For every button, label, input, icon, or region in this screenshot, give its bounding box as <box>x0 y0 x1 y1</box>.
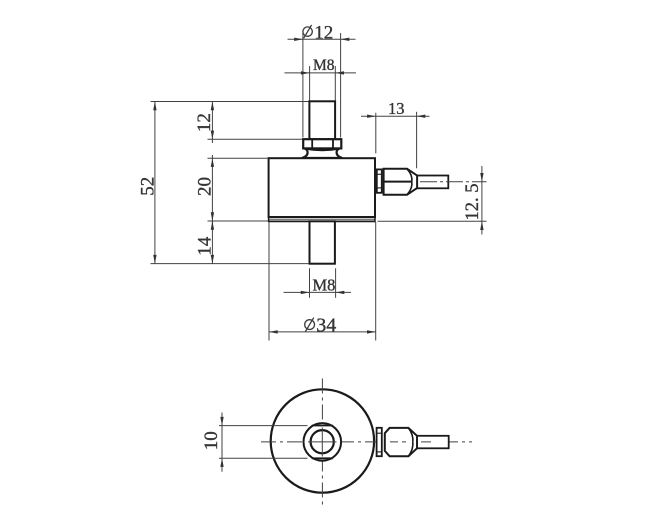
cable centerline (front view) <box>420 181 487 183</box>
dim M8 top line <box>285 72 357 74</box>
base plate top line <box>269 218 375 220</box>
dim 20 extension line at body top <box>208 157 269 159</box>
dim Ø12 extension lines <box>302 33 304 138</box>
dim Ø12 arrows <box>294 38 303 41</box>
svg-text:13: 13 <box>388 99 405 118</box>
main body cylinder <box>269 158 375 217</box>
washer band lines bottom view <box>377 432 382 434</box>
hex facet arc upper <box>407 169 412 182</box>
hex facet arc lower (bottom view) <box>408 442 413 456</box>
nut facet line right <box>332 139 334 148</box>
hex nut on upper stud <box>303 139 341 148</box>
dim 10 arrows <box>220 417 223 426</box>
dim 20 line <box>211 155 213 224</box>
dim 10 extension lines <box>219 425 308 427</box>
cable stub (front view) <box>417 176 448 189</box>
lower stud M8 <box>310 221 335 263</box>
svg-text:M8: M8 <box>313 275 336 294</box>
connector washer (front view) <box>377 169 382 192</box>
dim M8 bottom line <box>284 291 352 293</box>
hex mid parting line <box>384 181 412 183</box>
base plate left edge <box>268 217 270 222</box>
dim Ø12 line <box>288 38 356 40</box>
dim 52 extension line top <box>151 101 309 103</box>
dim Ø34 line <box>269 331 376 333</box>
base plate right edge <box>374 217 376 222</box>
svg-text:12. 5: 12. 5 <box>463 184 483 221</box>
upper stud M8 <box>309 101 335 139</box>
boss flat bottom <box>312 457 333 459</box>
base plate bottom line <box>269 220 375 222</box>
hex facet arc lower <box>407 182 412 195</box>
dim 13 line <box>361 115 430 117</box>
dim 12 arrows <box>211 102 214 111</box>
dim 12 line <box>211 102 213 144</box>
centerline dash inside cable <box>421 441 431 443</box>
dim Ø34 text <box>305 314 337 336</box>
dim 20 extension line at body bottom <box>208 220 269 222</box>
dim 12.5 extension line bottom <box>378 220 487 222</box>
nut facet line left <box>311 139 313 148</box>
dim M8 bottom extension lines <box>309 268 311 298</box>
dim Ø12 text <box>303 23 333 44</box>
dim 14 arrows <box>211 221 214 230</box>
dim 12 extension line at nut top <box>208 138 303 140</box>
dim 14 line <box>211 221 213 264</box>
dim 13 arrows <box>367 115 376 118</box>
hex facet arc upper (bottom view) <box>408 428 413 442</box>
dim 52 line <box>154 102 156 264</box>
inner hole circle <box>311 430 334 453</box>
dim Ø34 arrows <box>269 330 278 333</box>
connector hex body (bottom view) <box>385 428 417 456</box>
dim M8 top extension lines <box>309 66 311 101</box>
dim 10 line <box>221 413 223 472</box>
washer band lines <box>377 173 382 175</box>
dim 12.5 arrows <box>480 173 483 182</box>
svg-text:M8: M8 <box>313 57 335 74</box>
svg-text:52: 52 <box>137 177 158 196</box>
dim M8 top arrows <box>301 71 310 74</box>
dim M8 bottom arrows <box>301 291 310 294</box>
centerline dash inside hex <box>390 441 406 443</box>
svg-text:14: 14 <box>195 236 216 256</box>
svg-text:12: 12 <box>194 113 215 132</box>
hole crosshair horizontal <box>308 441 337 443</box>
hole crosshair vertical <box>321 428 323 457</box>
dim 13 extension lines <box>375 113 377 154</box>
trumpet flange under nut <box>302 148 343 158</box>
nut chamfer arc <box>304 148 340 150</box>
dim 20 arrows <box>211 158 214 167</box>
connector washer (bottom view) <box>377 428 382 456</box>
dim Ø34 extension lines <box>268 222 270 341</box>
connector hex body (front view) <box>384 169 418 195</box>
vertical centerline <box>321 379 323 506</box>
svg-text:10: 10 <box>201 431 222 450</box>
dim 52 arrows <box>153 102 156 111</box>
svg-text:34: 34 <box>316 314 336 336</box>
dim 12.5 line <box>481 166 483 235</box>
boss flat top <box>312 425 333 427</box>
svg-text:20: 20 <box>195 177 216 196</box>
horizontal centerline <box>261 441 472 443</box>
boss outer circle <box>304 423 342 461</box>
big circle body outline <box>271 389 374 492</box>
svg-text:12: 12 <box>314 23 333 44</box>
dim 52 extension line bottom <box>151 263 310 265</box>
cable stub (bottom view) <box>417 436 449 449</box>
